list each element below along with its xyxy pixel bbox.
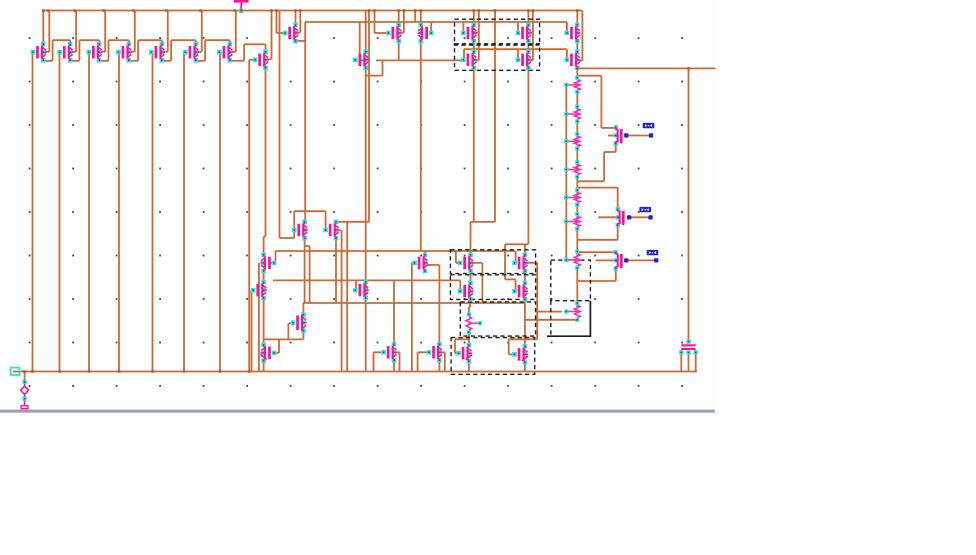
transistor MX (412, 253, 428, 274)
wire T9 source elbow (296, 40, 306, 42)
selection box A (450, 250, 535, 274)
wire T8 bulk riser (266, 11, 272, 60)
wire bulk riser T6 (196, 11, 202, 52)
wire TA1-TB1 link (470, 271, 472, 283)
wire T11 source (398, 41, 400, 60)
wire bulk riser T2 (70, 11, 76, 52)
wire cap feed column x688 (688, 68, 690, 341)
wire T10 drain riser (365, 11, 367, 52)
wire TA2-TB2 link (524, 271, 526, 283)
transistor M13 (565, 23, 581, 44)
wire diff tails (305, 238, 336, 303)
wire column x258 (258, 263, 260, 372)
wire T8 source down with jog (264, 68, 266, 255)
wire net y250 (276, 250, 516, 252)
transistor M3 (87, 42, 103, 63)
source symbol V0 (21, 380, 29, 409)
wire TD source column (505, 68, 528, 255)
wire TA gate riser (462, 22, 464, 33)
wire VSS bottom rail (13, 371, 697, 373)
wire bias line y22 (305, 21, 567, 23)
wire jog y222 (471, 222, 496, 255)
wire net y280 (273, 280, 460, 290)
wire T8 gate column (249, 60, 255, 372)
wire T11 drain riser (398, 11, 400, 25)
wire mirror line y60 (376, 59, 463, 61)
wire staircase T6-T7 (196, 40, 230, 61)
transistor ML4 (260, 342, 276, 363)
wire bias vertical x305 (304, 22, 306, 222)
transistor ML1 (260, 253, 276, 274)
power symbol VDD (234, 0, 249, 13)
wire bulk riser T7 (230, 11, 236, 52)
resistor R1 (564, 76, 580, 95)
wire diff bridge (294, 211, 325, 238)
selection box E (551, 260, 591, 301)
wire TC source column (473, 68, 475, 222)
wire bulk riser T3 (99, 11, 105, 52)
capacitor C1 (679, 340, 698, 355)
wire T11 bulk riser (399, 11, 404, 33)
wire stage1 gate feed (577, 76, 615, 128)
wire stage3 top feed (577, 251, 616, 253)
wire staircase T4-T5 (129, 40, 162, 61)
wire TM2 bulk drop (443, 352, 445, 371)
wire TB drain riser (527, 11, 529, 25)
wire stage2 gate stub (598, 216, 618, 218)
wire gnd stub (24, 372, 26, 381)
wire stage1 gate stub (608, 135, 616, 137)
resistor R3 (564, 132, 580, 151)
wire TX top stub (424, 251, 426, 255)
wire TD1 source (468, 361, 470, 371)
selection box D (451, 338, 535, 375)
port OUT2 (639, 207, 651, 212)
wire T7 to T8 link (230, 44, 266, 61)
wire TA bulk riser (474, 11, 479, 61)
transistor MD (516, 49, 532, 70)
selection box D1 (455, 19, 540, 45)
wire TM1 top riser (393, 280, 395, 344)
wire bulk riser T4 (129, 11, 135, 52)
wire T11 gate (375, 11, 389, 34)
solder dot stage3 left (624, 258, 628, 262)
wire tap bus x566 (565, 85, 567, 261)
wire TL4 right elbow (274, 339, 279, 352)
wire TD2 column (524, 303, 526, 346)
transistor MS2 (616, 207, 625, 227)
wire TMID gate riser (355, 280, 357, 290)
wire riser x415 (414, 11, 416, 23)
wire bulk riser T1 (43, 11, 49, 52)
wire stage3 out (626, 259, 656, 261)
wire highlighted black net (547, 301, 590, 337)
wire TL chain (263, 271, 265, 372)
solder dot stage1 right (649, 133, 653, 137)
transistor M11 (386, 23, 402, 44)
wire T1 drain riser (42, 11, 44, 45)
wire T3 bottom (302, 331, 304, 340)
wire stage1 out (626, 135, 651, 137)
transistor MB2 (512, 281, 528, 302)
wire staircase T3-T4 (99, 40, 129, 61)
transistor M7 (217, 42, 233, 63)
selection box C (460, 302, 535, 336)
wire net y319 (525, 319, 577, 321)
wire TB-TD link (527, 41, 529, 51)
wire TA2 right elbow (525, 263, 537, 340)
transistor MD1 (292, 220, 308, 241)
wire TB1 source (470, 299, 472, 303)
wire gate column 1 to VSS rail (32, 52, 34, 371)
wire riser x495 (494, 11, 496, 222)
wire TX gate (412, 263, 415, 372)
solder dot stage3 right (654, 258, 658, 262)
wire diff right top line (336, 221, 369, 223)
wire gate column 2 to VSS rail (59, 52, 61, 371)
wire staircase T1-T2 (43, 40, 70, 61)
wire staircase T5-T6 (162, 40, 196, 61)
wire T3 gate riser (288, 323, 293, 339)
transistor MM2 (427, 342, 443, 363)
wire TD2 gate U (509, 339, 525, 354)
transistor M1 (31, 42, 47, 63)
port OUT3 (647, 250, 659, 255)
wire VDD top rail (42, 10, 582, 12)
selection box D2 (455, 44, 540, 71)
transistor M2 (57, 42, 73, 63)
wire net y339 (264, 338, 304, 340)
transistor M12 (418, 23, 434, 44)
wire TD2 source (524, 363, 526, 372)
wire stage1 source (577, 144, 615, 181)
transistor MS3 (614, 250, 623, 271)
wire TB gate riser (517, 22, 519, 33)
wire TM1 bulk drop (397, 352, 399, 371)
wire TA-TC link (473, 41, 475, 51)
transistor MB (516, 23, 532, 44)
transistor MA2 (512, 253, 528, 274)
wire T10 source column (365, 68, 367, 372)
wire column x347 (346, 222, 348, 372)
transistor M9 (283, 23, 299, 44)
transistor MD2b (512, 344, 528, 365)
transistor M8 (253, 49, 269, 70)
transistor MMID (353, 280, 369, 301)
transistor MA (461, 23, 477, 44)
wire stage2 source (577, 225, 617, 239)
wire T13-T14 link (576, 41, 578, 51)
transistor MD1b (456, 343, 472, 364)
wire riser x455 (456, 251, 460, 263)
transistor MB1 (458, 281, 474, 302)
wire TC gate riser x464 (463, 49, 465, 60)
wire TM1 gate U (374, 352, 384, 371)
resistor R6 (564, 212, 580, 231)
wire net y303 (303, 302, 525, 304)
transistor MC (461, 49, 477, 70)
wire bulk riser T5 (162, 11, 168, 52)
wire bias line y49 (464, 48, 567, 50)
wire riser x515 TA2 gate (515, 251, 517, 263)
wire TB bulk riser (528, 11, 533, 61)
transistor MA1 (458, 253, 474, 274)
wire stage2 top feed (577, 188, 617, 210)
solder dot stage2 right (648, 215, 652, 219)
wire column x341 (336, 230, 342, 371)
transistor M10 (353, 49, 369, 70)
wire rail end drop (579, 11, 583, 61)
wire TL2 gate (252, 290, 255, 371)
wire stage3 source (577, 269, 616, 281)
wire gate column 4 to VSS rail (118, 52, 120, 371)
wire TB2 source (524, 299, 526, 303)
solder dot stage2 left (627, 215, 631, 219)
wire TM1 source (393, 361, 395, 372)
wire RC bottom (468, 332, 470, 346)
transistor MM1 (381, 342, 397, 363)
wire T9 gate riser (277, 11, 286, 34)
wire T9 bulk riser (296, 11, 301, 33)
wire TM2 source (438, 362, 440, 372)
wire staircase T2-T3 (70, 40, 99, 61)
wire TD1 gate U (455, 339, 469, 353)
resistor R8 (564, 301, 580, 322)
transistor M6 (183, 42, 199, 63)
wire riser x279 with jog (280, 11, 295, 239)
selection box E extension (550, 301, 552, 337)
transistor MS1 (614, 125, 623, 146)
wire T3 top riser (302, 303, 304, 315)
transistor M3B (291, 312, 307, 333)
wire TD gate riser (517, 49, 519, 60)
resistor R5 (564, 188, 580, 207)
wire gate column 3 to VSS rail (88, 52, 90, 371)
resistor R7 (564, 250, 580, 271)
transistor ML2 (251, 280, 267, 301)
transistor MD2 (323, 220, 339, 241)
node marker left rail end (11, 368, 20, 375)
wire TM2 gate U (418, 352, 429, 371)
wire resistor chain segments (576, 68, 578, 320)
selection box B (450, 275, 535, 300)
port OUT1 (643, 123, 655, 128)
status bar (0, 410, 715, 413)
transistor M4 (116, 42, 132, 63)
wire jog x382 (366, 60, 383, 75)
wire gate column 7 to VSS rail (219, 52, 221, 371)
wire TX right elbow (425, 265, 440, 345)
wire gate column 6 to VSS rail (183, 52, 185, 371)
wire T9 drain riser (295, 11, 297, 25)
resistor R2 (564, 105, 580, 124)
resistor R4 (564, 160, 580, 179)
wire R8 tap line (525, 312, 562, 340)
wire T13 drain riser (576, 11, 578, 25)
wire T10 gate (360, 22, 365, 60)
wire T12 source column (420, 41, 422, 251)
wire gate column 5 to VSS rail (152, 52, 154, 371)
wire cap stubs (681, 350, 695, 372)
wire TA1 right elbow (471, 263, 483, 303)
wire mid rail y68 (577, 67, 715, 69)
wire TA drain riser (473, 11, 475, 25)
wire stage2 out (629, 216, 650, 218)
wire TL1 gate riser (271, 251, 276, 263)
wire T14 gate riser (566, 49, 568, 60)
transistor M14 (565, 49, 581, 70)
wire T12 drain riser (420, 11, 422, 25)
transistor M5 (149, 42, 165, 63)
wire RC feed jog (469, 303, 470, 315)
resistor RC (466, 312, 482, 334)
solder dot stage1 left (624, 133, 628, 137)
wire x505 to TB2 gate (505, 244, 516, 290)
wire stage3 gate stub (596, 259, 616, 261)
wire T12 gate riser (430, 22, 432, 33)
wire diff gate riser x369 (368, 11, 370, 222)
wire T13 gate riser (566, 22, 568, 33)
